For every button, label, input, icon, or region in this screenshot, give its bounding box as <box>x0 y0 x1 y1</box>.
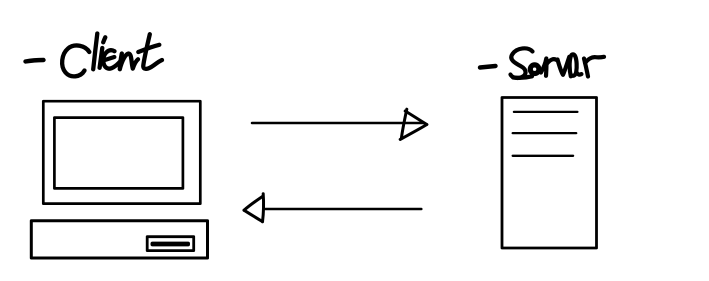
arrow client to server: shaft <box>252 122 424 125</box>
client computer: monitor screen <box>54 118 183 189</box>
label "- Client" dash <box>26 60 44 62</box>
client computer: monitor outer frame <box>43 101 200 203</box>
label "Server" handwritten word <box>511 48 605 78</box>
arrow server to client: open head <box>244 194 264 222</box>
server detail line 2 <box>513 132 577 134</box>
arrow server to client: shaft <box>266 208 422 211</box>
arrow client to server: open head <box>400 109 427 139</box>
client computer: drive slot bar <box>151 242 191 247</box>
client computer: drive slot outer <box>147 237 194 251</box>
label "Client" handwritten word <box>62 34 162 77</box>
label "- Server" dash <box>480 66 496 68</box>
server detail line 1 <box>514 111 578 113</box>
server detail line 3 <box>513 155 573 157</box>
client computer: base unit <box>31 221 207 258</box>
server box <box>502 98 597 249</box>
